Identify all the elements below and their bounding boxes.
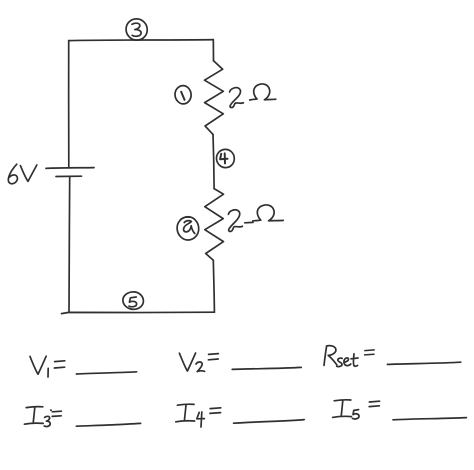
- label I3 dot: [50, 409, 52, 411]
- label I4 equals: [210, 408, 221, 414]
- node 4 digit: [220, 153, 227, 163]
- node 5 circle: [123, 292, 144, 309]
- wire left upper: [68, 41, 70, 167]
- battery B1 plate positive: [46, 167, 94, 170]
- wire right mid: [213, 134, 214, 188]
- wire left lower: [68, 177, 71, 312]
- label I5: [333, 400, 352, 418]
- label I3 subscript: [44, 416, 50, 426]
- node 3 circle: [126, 19, 147, 40]
- node 2 circle inner arc: [181, 217, 190, 220]
- node 3 digit: [132, 23, 141, 36]
- R2 dash: [245, 221, 253, 223]
- label I5 equals: [369, 401, 379, 406]
- blank line I3: [76, 423, 140, 426]
- node 4 circle: [216, 149, 234, 167]
- label Rset t: [351, 354, 358, 366]
- R2 value 2: [228, 210, 242, 232]
- wire top: [69, 40, 214, 41]
- wire right lower: [213, 260, 214, 312]
- label V2: [179, 353, 195, 371]
- label Rset equals: [365, 350, 375, 355]
- battery label 6V : V: [20, 165, 36, 181]
- label Rset R: [324, 346, 337, 366]
- label V1 equals: [54, 361, 64, 368]
- label I3: [24, 407, 43, 425]
- label Rset e: [344, 358, 351, 366]
- label I5 subscript: [352, 410, 359, 419]
- resistor R1: [205, 61, 224, 135]
- resistor R2: [205, 189, 224, 261]
- label V1 subscript: [47, 368, 49, 377]
- node 2 circle: [177, 217, 199, 240]
- label Rset s: [337, 358, 343, 367]
- R2 value ohm: [253, 205, 283, 221]
- blank line I5: [393, 418, 466, 420]
- label I3 equals: [52, 411, 61, 416]
- battery B1 plate negative: [56, 175, 82, 177]
- node 1 circle: [175, 86, 191, 104]
- label V2 subscript: [196, 362, 205, 372]
- R1 value ohm: [250, 84, 276, 100]
- blank line Rset: [387, 362, 460, 364]
- label I4 subscript: [197, 412, 205, 427]
- node 1 digit: [181, 92, 184, 100]
- R1 value 2: [230, 88, 244, 108]
- blank line V2: [232, 367, 301, 369]
- label I4: [176, 404, 195, 422]
- node 5 digit: [129, 297, 137, 307]
- blank line I4: [234, 420, 305, 424]
- node 2 digit: [184, 221, 195, 234]
- wire bottom: [62, 312, 215, 313]
- label V1: [30, 356, 46, 374]
- wire right upper: [212, 40, 214, 61]
- label V2 equals: [208, 354, 218, 360]
- battery label 6V : 6: [8, 164, 17, 184]
- blank line V1: [76, 372, 136, 374]
